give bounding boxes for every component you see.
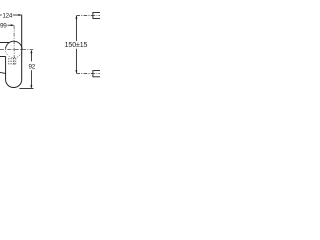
- dim 92 upper line: [30, 51, 32, 62]
- svg-text:150±15: 150±15: [65, 42, 88, 49]
- fixture top edge line: [0, 42, 9, 44]
- top connection box: [93, 12, 101, 18]
- dim 92 bottom extension line: [19, 88, 33, 90]
- fixture right edge + 124 extension line: [21, 15, 23, 81]
- dim 99 arrowhead: [11, 24, 14, 26]
- top connection box midline: [93, 14, 101, 16]
- dim 150±15 lower line: [75, 49, 77, 73]
- bowl bottom U arc: [6, 80, 22, 87]
- dim 92 down arrowhead: [30, 85, 32, 88]
- dim 99 line: [8, 24, 14, 26]
- bowl left inner edge: [5, 57, 7, 81]
- circle hidden lower arc (dashed): [6, 49, 23, 58]
- supply centerline top (dash-dot): [76, 14, 92, 16]
- background: [0, 0, 100, 100]
- dim 92 lower line: [30, 70, 32, 88]
- dim 124 leading dash: [0, 14, 2, 16]
- svg-text:92: 92: [29, 63, 36, 70]
- bottom connection box midline: [93, 73, 101, 75]
- svg-text:124: 124: [2, 12, 13, 19]
- dim 124 arrowhead: [18, 14, 21, 16]
- dim 150±15 up arrowhead: [75, 16, 77, 19]
- supply centerline bottom (dash-dot): [76, 73, 92, 75]
- svg-text:99: 99: [0, 22, 7, 29]
- dim 150±15 down arrowhead: [75, 70, 77, 73]
- hidden outlet dotted pattern: [8, 58, 16, 64]
- dim 92 up arrowhead: [30, 50, 32, 53]
- vertical centerline: [13, 25, 15, 64]
- lower rim line: [0, 72, 6, 73]
- horizontal centerline: [0, 49, 33, 51]
- circle (spreader) solid top arc: [6, 41, 23, 49]
- dim 150±15 upper line: [75, 16, 77, 41]
- dim 124 line: [13, 14, 21, 16]
- rim step line: [0, 56, 6, 58]
- bottom connection box: [93, 71, 101, 77]
